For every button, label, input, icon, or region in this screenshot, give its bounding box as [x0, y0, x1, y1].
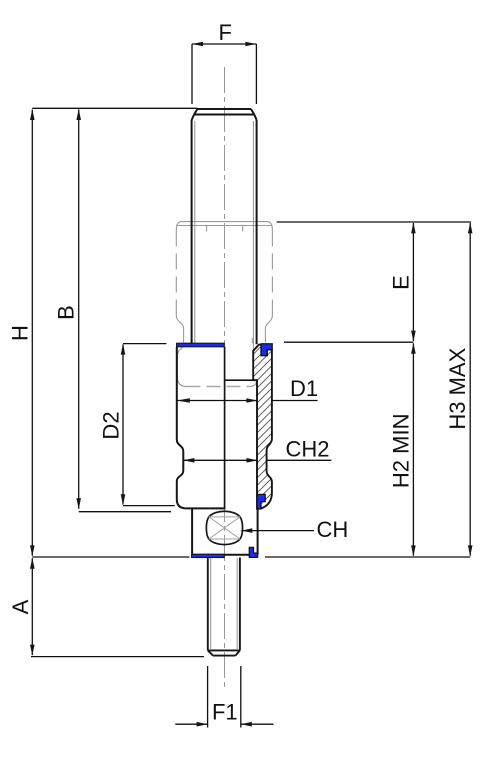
cap — [192, 109, 257, 345]
flange — [192, 509, 258, 555]
phantom top edge — [176, 222, 272, 387]
CH2 dim — [183, 459, 331, 461]
svg-text:CH2: CH2 — [286, 437, 330, 462]
F1 arrows — [197, 722, 208, 727]
A bottom ext — [31, 656, 204, 658]
A dim line — [31, 558, 33, 655]
phantom tube bottom inside body — [177, 348, 186, 387]
center line — [224, 67, 226, 691]
F dim line — [192, 43, 256, 45]
svg-text:H: H — [7, 325, 32, 341]
D1 dim — [177, 400, 318, 402]
top ext line H/B — [32, 107, 197, 109]
H3 dim — [469, 223, 471, 556]
D2 dim — [123, 344, 175, 506]
body top seal (blue bar) — [177, 343, 225, 347]
svg-text:D2: D2 — [99, 411, 124, 439]
svg-text:A: A — [8, 599, 33, 614]
D1 arrows — [177, 398, 190, 403]
CH arrow — [241, 528, 252, 533]
E dim — [412, 223, 414, 341]
hatched sleeve section — [253, 345, 272, 509]
tube thread lines — [194, 121, 196, 344]
small gray line above sleeve — [251, 338, 253, 343]
tube outer edges — [191, 120, 193, 345]
phantom cap inner lines — [176, 225, 272, 227]
flange bottom-right seal — [249, 547, 257, 557]
svg-text:D1: D1 — [290, 376, 318, 401]
E arrows — [411, 222, 416, 233]
top-right seal — [261, 344, 272, 356]
D2 arrows — [121, 344, 126, 355]
svg-text:B: B — [54, 305, 79, 320]
H2 arrows — [411, 343, 416, 354]
F1 dim — [175, 723, 273, 725]
right mid ext — [284, 341, 413, 343]
right bottom ext — [265, 556, 470, 558]
right top ext — [277, 221, 471, 223]
body left profile — [177, 347, 226, 508]
F arrows — [192, 42, 203, 47]
H dim line — [31, 110, 33, 556]
F ext lines — [192, 44, 256, 104]
center section edge — [224, 347, 226, 509]
A arrows — [30, 558, 35, 569]
hex ball — [206, 511, 242, 544]
phantom flare — [176, 316, 183, 343]
svg-text:E: E — [389, 275, 414, 290]
B bottom ext — [79, 511, 171, 513]
svg-text:H3 MAX: H3 MAX — [445, 347, 470, 429]
H3 arrows — [468, 222, 473, 233]
mid-right seal (sleeve bottom) — [257, 494, 265, 508]
stud — [208, 558, 240, 656]
H arrows — [30, 109, 35, 120]
svg-text:F1: F1 — [212, 700, 238, 725]
H2 dim — [412, 343, 414, 556]
A top ext — [32, 556, 189, 558]
rod bottom line in section — [225, 379, 257, 381]
B dim line — [78, 110, 80, 509]
CH leader — [241, 530, 314, 532]
stud thread lines — [211, 558, 238, 650]
B arrows — [76, 109, 81, 120]
svg-text:CH: CH — [317, 517, 349, 542]
CH2 arrows — [183, 458, 194, 463]
F1 ext — [208, 666, 241, 728]
flange bottom seal (blue bar) — [192, 554, 225, 557]
phantom side dashed — [175, 231, 177, 316]
svg-text:F: F — [218, 20, 231, 45]
svg-text:H2 MIN: H2 MIN — [389, 414, 414, 489]
